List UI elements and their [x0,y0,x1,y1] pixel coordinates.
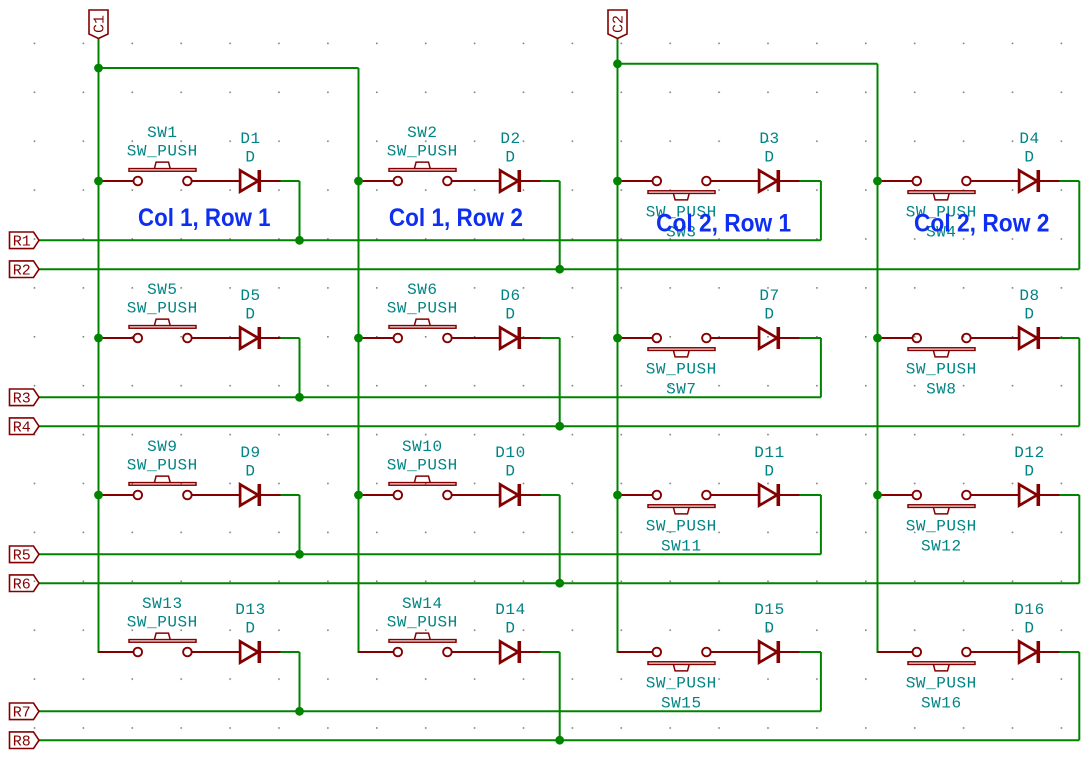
svg-text:D7: D7 [759,287,779,305]
svg-text:D: D [505,305,515,323]
svg-text:D5: D5 [240,287,260,305]
svg-text:D: D [505,462,515,480]
svg-text:D: D [1024,305,1034,323]
svg-text:D: D [764,305,774,323]
svg-text:D: D [505,619,515,637]
svg-text:SW16: SW16 [921,695,962,713]
svg-text:SW15: SW15 [661,695,702,713]
svg-text:SW9: SW9 [147,438,177,456]
svg-text:SW14: SW14 [402,595,443,613]
svg-text:D: D [764,148,774,166]
svg-text:D8: D8 [1019,287,1039,305]
svg-text:R2: R2 [13,262,31,279]
svg-text:SW_PUSH: SW_PUSH [646,675,717,693]
svg-text:C1: C1 [92,15,109,33]
svg-text:SW_PUSH: SW_PUSH [906,361,977,379]
svg-text:D16: D16 [1014,601,1044,619]
svg-text:SW_PUSH: SW_PUSH [906,675,977,693]
svg-text:R5: R5 [13,548,31,565]
svg-text:SW_PUSH: SW_PUSH [127,299,198,317]
svg-text:D: D [1024,619,1034,637]
svg-text:SW1: SW1 [147,124,177,142]
svg-text:D: D [764,619,774,637]
svg-text:R4: R4 [13,419,31,436]
svg-text:SW2: SW2 [407,124,437,142]
svg-text:SW_PUSH: SW_PUSH [127,613,198,631]
svg-text:D14: D14 [495,601,525,619]
svg-text:SW_PUSH: SW_PUSH [646,518,717,536]
svg-text:D12: D12 [1014,444,1044,462]
svg-text:D: D [245,305,255,323]
svg-text:D: D [505,148,515,166]
svg-text:C2: C2 [611,15,628,33]
svg-text:SW13: SW13 [142,595,183,613]
svg-text:D: D [764,462,774,480]
svg-text:R8: R8 [13,733,31,750]
svg-text:SW7: SW7 [666,381,696,399]
svg-text:D: D [245,619,255,637]
svg-text:SW5: SW5 [147,281,177,299]
svg-text:SW_PUSH: SW_PUSH [127,142,198,160]
svg-text:Col 2, Row 1: Col 2, Row 1 [656,209,791,237]
svg-text:D2: D2 [500,130,520,148]
svg-text:D4: D4 [1019,130,1039,148]
svg-text:SW_PUSH: SW_PUSH [387,613,458,631]
svg-text:Col 1, Row 2: Col 1, Row 2 [389,204,523,232]
svg-text:R3: R3 [13,391,31,408]
svg-text:D: D [1024,462,1034,480]
svg-text:R1: R1 [13,234,31,251]
svg-text:SW10: SW10 [402,438,443,456]
svg-text:D15: D15 [754,601,784,619]
svg-text:R7: R7 [13,705,31,722]
svg-text:SW12: SW12 [921,538,962,556]
svg-text:D: D [245,148,255,166]
svg-text:Col 2, Row 2: Col 2, Row 2 [914,209,1050,237]
svg-text:SW_PUSH: SW_PUSH [387,456,458,474]
svg-text:D11: D11 [754,444,784,462]
svg-text:D3: D3 [759,130,779,148]
svg-text:D1: D1 [240,130,260,148]
svg-text:SW_PUSH: SW_PUSH [387,299,458,317]
svg-text:SW_PUSH: SW_PUSH [906,518,977,536]
svg-text:Col 1, Row 1: Col 1, Row 1 [138,204,271,232]
svg-text:D10: D10 [495,444,525,462]
svg-text:SW6: SW6 [407,281,437,299]
svg-text:D9: D9 [240,444,260,462]
svg-text:SW_PUSH: SW_PUSH [127,456,198,474]
svg-text:SW_PUSH: SW_PUSH [387,142,458,160]
svg-text:SW8: SW8 [926,381,956,399]
svg-text:D: D [1024,148,1034,166]
svg-text:SW11: SW11 [661,538,702,556]
svg-text:D6: D6 [500,287,520,305]
svg-text:R6: R6 [13,576,31,593]
svg-text:D: D [245,462,255,480]
svg-text:SW_PUSH: SW_PUSH [646,361,717,379]
svg-text:D13: D13 [235,601,265,619]
